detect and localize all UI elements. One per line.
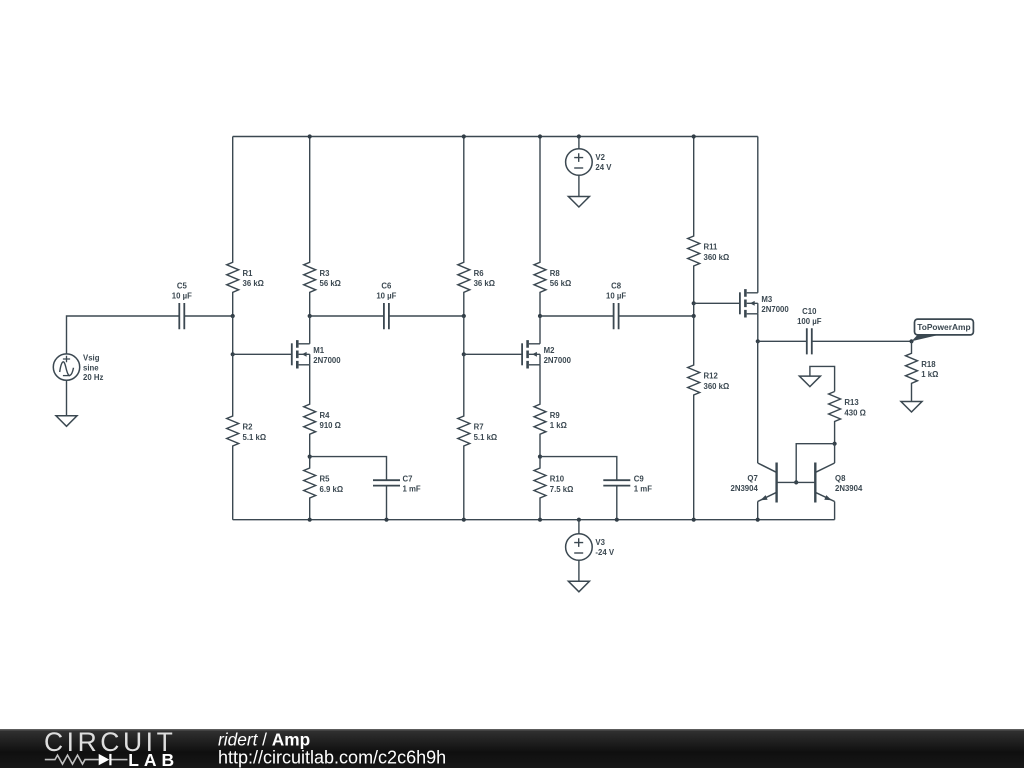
svg-text:M2: M2 bbox=[544, 346, 555, 355]
transistor M2 bbox=[522, 340, 571, 368]
svg-text:Q8: Q8 bbox=[835, 474, 846, 483]
resistor R9 bbox=[534, 365, 567, 457]
wire C6 right bbox=[389, 315, 464, 317]
svg-text:360 kΩ: 360 kΩ bbox=[704, 253, 730, 262]
wire bottom rail bbox=[233, 519, 835, 521]
node R6/C6 bbox=[462, 314, 466, 318]
svg-text:36 kΩ: 36 kΩ bbox=[243, 279, 264, 288]
node R13/Q8 collector bbox=[833, 442, 837, 446]
node R8/C8 bbox=[538, 314, 542, 318]
node input (C5/R1/R2) bbox=[231, 314, 235, 318]
svg-text:C9: C9 bbox=[634, 474, 645, 483]
footer bar bbox=[0, 729, 1024, 768]
svg-text:910 Ω: 910 Ω bbox=[320, 421, 341, 430]
capacitor C6 bbox=[376, 282, 396, 330]
node R11 top rail bbox=[692, 134, 696, 138]
svg-text:2N7000: 2N7000 bbox=[544, 356, 572, 365]
svg-text:100 µF: 100 µF bbox=[797, 317, 822, 326]
svg-text:M1: M1 bbox=[313, 346, 324, 355]
source V2 bbox=[566, 149, 613, 176]
svg-text:ridert / Amp: ridert / Amp bbox=[218, 730, 310, 750]
svg-text:-24 V: -24 V bbox=[595, 548, 614, 557]
resistor R3 bbox=[304, 137, 341, 317]
node R9/R10/C9 bbox=[538, 455, 542, 459]
svg-text:5.1 kΩ: 5.1 kΩ bbox=[243, 433, 267, 442]
wire C5 to node bbox=[184, 315, 232, 317]
wire C6 left bbox=[310, 315, 384, 317]
wire C10 to flag node bbox=[812, 340, 912, 342]
svg-text:6.9 kΩ: 6.9 kΩ bbox=[320, 485, 344, 494]
wire R4 node to C7 bbox=[310, 457, 387, 481]
wire gate node to C8 node bbox=[693, 303, 695, 316]
wire M1 gate bbox=[233, 353, 292, 355]
svg-text:360 kΩ: 360 kΩ bbox=[704, 382, 730, 391]
capacitor C10 bbox=[797, 307, 822, 354]
logo glyph wire bbox=[45, 755, 99, 764]
svg-text:R8: R8 bbox=[550, 269, 561, 278]
svg-text:1 mF: 1 mF bbox=[634, 484, 652, 493]
svg-text:2N3904: 2N3904 bbox=[835, 484, 863, 493]
svg-text:ToPowerAmp: ToPowerAmp bbox=[917, 322, 970, 332]
svg-text:C8: C8 bbox=[611, 282, 622, 291]
wire R9 node to C9 bbox=[540, 457, 617, 481]
wire V3 top bbox=[578, 520, 580, 534]
svg-text:2N7000: 2N7000 bbox=[761, 305, 789, 314]
svg-text:10 µF: 10 µF bbox=[376, 292, 396, 301]
resistor R10 bbox=[534, 457, 573, 520]
wire node to gate node bbox=[232, 316, 234, 354]
svg-text:V2: V2 bbox=[595, 153, 605, 162]
svg-text:R9: R9 bbox=[550, 411, 561, 420]
resistor R5 bbox=[304, 457, 343, 520]
wire M2 gate bbox=[464, 353, 522, 355]
svg-text:R4: R4 bbox=[320, 411, 331, 420]
svg-text:R3: R3 bbox=[320, 269, 331, 278]
wire C8 left bbox=[540, 315, 614, 317]
transistor Q7 bbox=[730, 463, 776, 503]
svg-text:C6: C6 bbox=[381, 282, 392, 291]
ground (R18) bbox=[901, 402, 922, 413]
node R8 top rail bbox=[538, 134, 542, 138]
svg-text:430 Ω: 430 Ω bbox=[844, 408, 865, 417]
svg-text:R10: R10 bbox=[550, 475, 565, 484]
svg-text:http://circuitlab.com/c2c6h9h: http://circuitlab.com/c2c6h9h bbox=[218, 748, 446, 768]
node bottom rail R5 bbox=[308, 518, 312, 522]
node bottom rail R12 bbox=[692, 518, 696, 522]
node M3 source / output bbox=[756, 339, 760, 343]
flag ToPowerAmp bbox=[912, 319, 974, 341]
resistor R1 bbox=[227, 137, 264, 317]
wire Vsig bottom bbox=[66, 380, 68, 416]
svg-text:R2: R2 bbox=[243, 423, 254, 432]
resistor R4 bbox=[304, 365, 341, 457]
logo glyph diode bbox=[99, 754, 110, 765]
resistor R6 bbox=[458, 137, 495, 317]
resistor R13 bbox=[829, 392, 866, 444]
svg-text:36 kΩ: 36 kΩ bbox=[474, 279, 495, 288]
svg-text:LAB: LAB bbox=[128, 750, 179, 768]
wire C8 right bbox=[619, 315, 694, 317]
svg-text:R11: R11 bbox=[704, 243, 719, 252]
svg-text:R6: R6 bbox=[474, 269, 485, 278]
wire R8 to M2 drain bbox=[539, 316, 541, 344]
wire V3 bottom bbox=[578, 560, 580, 581]
node V3 bottom rail bbox=[577, 518, 581, 522]
wire Vsig top bbox=[67, 316, 180, 354]
svg-text:24 V: 24 V bbox=[595, 163, 612, 172]
ground (Vsig) bbox=[56, 416, 77, 427]
transistor M3 bbox=[740, 289, 789, 317]
wire R6 node down bbox=[463, 316, 465, 354]
node R4/R5/C7 bbox=[308, 455, 312, 459]
svg-text:V3: V3 bbox=[595, 538, 605, 547]
wire ground to R13 bbox=[810, 366, 835, 391]
node output flag bbox=[909, 339, 913, 343]
svg-text:Q7: Q7 bbox=[747, 474, 757, 483]
node bottom rail R10 bbox=[538, 518, 542, 522]
wire M3 drain to top rail bbox=[757, 137, 759, 293]
ground (V2) bbox=[568, 197, 589, 208]
svg-text:1 mF: 1 mF bbox=[403, 484, 421, 493]
resistor R8 bbox=[534, 137, 571, 317]
resistor R2 bbox=[227, 354, 266, 519]
svg-text:56 kΩ: 56 kΩ bbox=[550, 279, 571, 288]
svg-text:56 kΩ: 56 kΩ bbox=[320, 279, 341, 288]
svg-text:2N7000: 2N7000 bbox=[313, 356, 341, 365]
svg-text:1 kΩ: 1 kΩ bbox=[550, 421, 567, 430]
wire M3 gate bbox=[694, 302, 740, 304]
svg-text:Vsig: Vsig bbox=[83, 354, 100, 363]
node bottom rail R7 bbox=[462, 518, 466, 522]
ground (V3) bbox=[568, 581, 589, 592]
wire Q7 base to Q8 base bbox=[777, 481, 816, 483]
capacitor C7 bbox=[373, 474, 421, 493]
transistor M1 bbox=[292, 340, 341, 368]
svg-text:M3: M3 bbox=[761, 295, 772, 304]
wire M3 source to output node bbox=[757, 314, 759, 342]
node R3/C6 bbox=[308, 314, 312, 318]
node M1 gate bbox=[231, 352, 235, 356]
svg-text:R5: R5 bbox=[320, 475, 331, 484]
resistor R12 bbox=[688, 316, 730, 520]
svg-text:R12: R12 bbox=[704, 372, 719, 381]
wire output to C10 bbox=[758, 340, 807, 342]
svg-text:20 Hz: 20 Hz bbox=[83, 373, 103, 382]
wire C7 bottom bbox=[386, 486, 388, 520]
node M3 gate bbox=[692, 301, 696, 305]
capacitor C9 bbox=[603, 474, 652, 493]
svg-text:sine: sine bbox=[83, 364, 99, 373]
wire V2 bottom bbox=[578, 175, 580, 197]
svg-text:10 µF: 10 µF bbox=[606, 292, 626, 301]
capacitor C5 bbox=[172, 282, 192, 330]
capacitor C8 bbox=[606, 282, 626, 330]
transistor Q8 bbox=[815, 463, 863, 503]
resistor R18 bbox=[906, 341, 939, 401]
node bottom rail C9 bbox=[615, 518, 619, 522]
node M2 gate bbox=[462, 352, 466, 356]
svg-text:C7: C7 bbox=[403, 474, 413, 483]
wire V2 top bbox=[578, 137, 580, 149]
node C8/R12 bbox=[692, 314, 696, 318]
wire top rail V+ bbox=[233, 136, 758, 138]
wire R3 to M1 drain bbox=[309, 316, 311, 344]
svg-text:C10: C10 bbox=[802, 307, 817, 316]
svg-text:R13: R13 bbox=[844, 398, 859, 407]
wire Q7 emitter to rail bbox=[757, 502, 759, 520]
svg-text:5.1 kΩ: 5.1 kΩ bbox=[474, 433, 498, 442]
svg-text:2N3904: 2N3904 bbox=[730, 484, 758, 493]
wire C9 bottom bbox=[616, 486, 618, 520]
svg-text:1 kΩ: 1 kΩ bbox=[921, 370, 938, 379]
wire Q8 emitter to rail bbox=[834, 502, 836, 520]
wire base tie bbox=[796, 444, 834, 483]
resistor R7 bbox=[458, 354, 497, 519]
svg-text:C5: C5 bbox=[177, 282, 188, 291]
resistor R11 bbox=[688, 137, 730, 304]
ground (R13 ref) bbox=[799, 376, 820, 387]
node bottom rail C7 bbox=[384, 518, 388, 522]
node Q7 emitter rail bbox=[756, 518, 760, 522]
svg-text:7.5 kΩ: 7.5 kΩ bbox=[550, 485, 574, 494]
node V2 top rail bbox=[577, 134, 581, 138]
node R3 top rail bbox=[308, 134, 312, 138]
wire Q8 collector bbox=[834, 444, 836, 463]
node base tie bbox=[794, 480, 798, 484]
svg-text:R18: R18 bbox=[921, 360, 936, 369]
wire output node to Q7 collector bbox=[757, 341, 759, 463]
svg-text:10 µF: 10 µF bbox=[172, 292, 192, 301]
node R6 top rail bbox=[462, 134, 466, 138]
source V3 bbox=[566, 534, 615, 561]
svg-text:R7: R7 bbox=[474, 423, 484, 432]
svg-text:R1: R1 bbox=[243, 269, 254, 278]
source Vsig bbox=[53, 354, 103, 383]
